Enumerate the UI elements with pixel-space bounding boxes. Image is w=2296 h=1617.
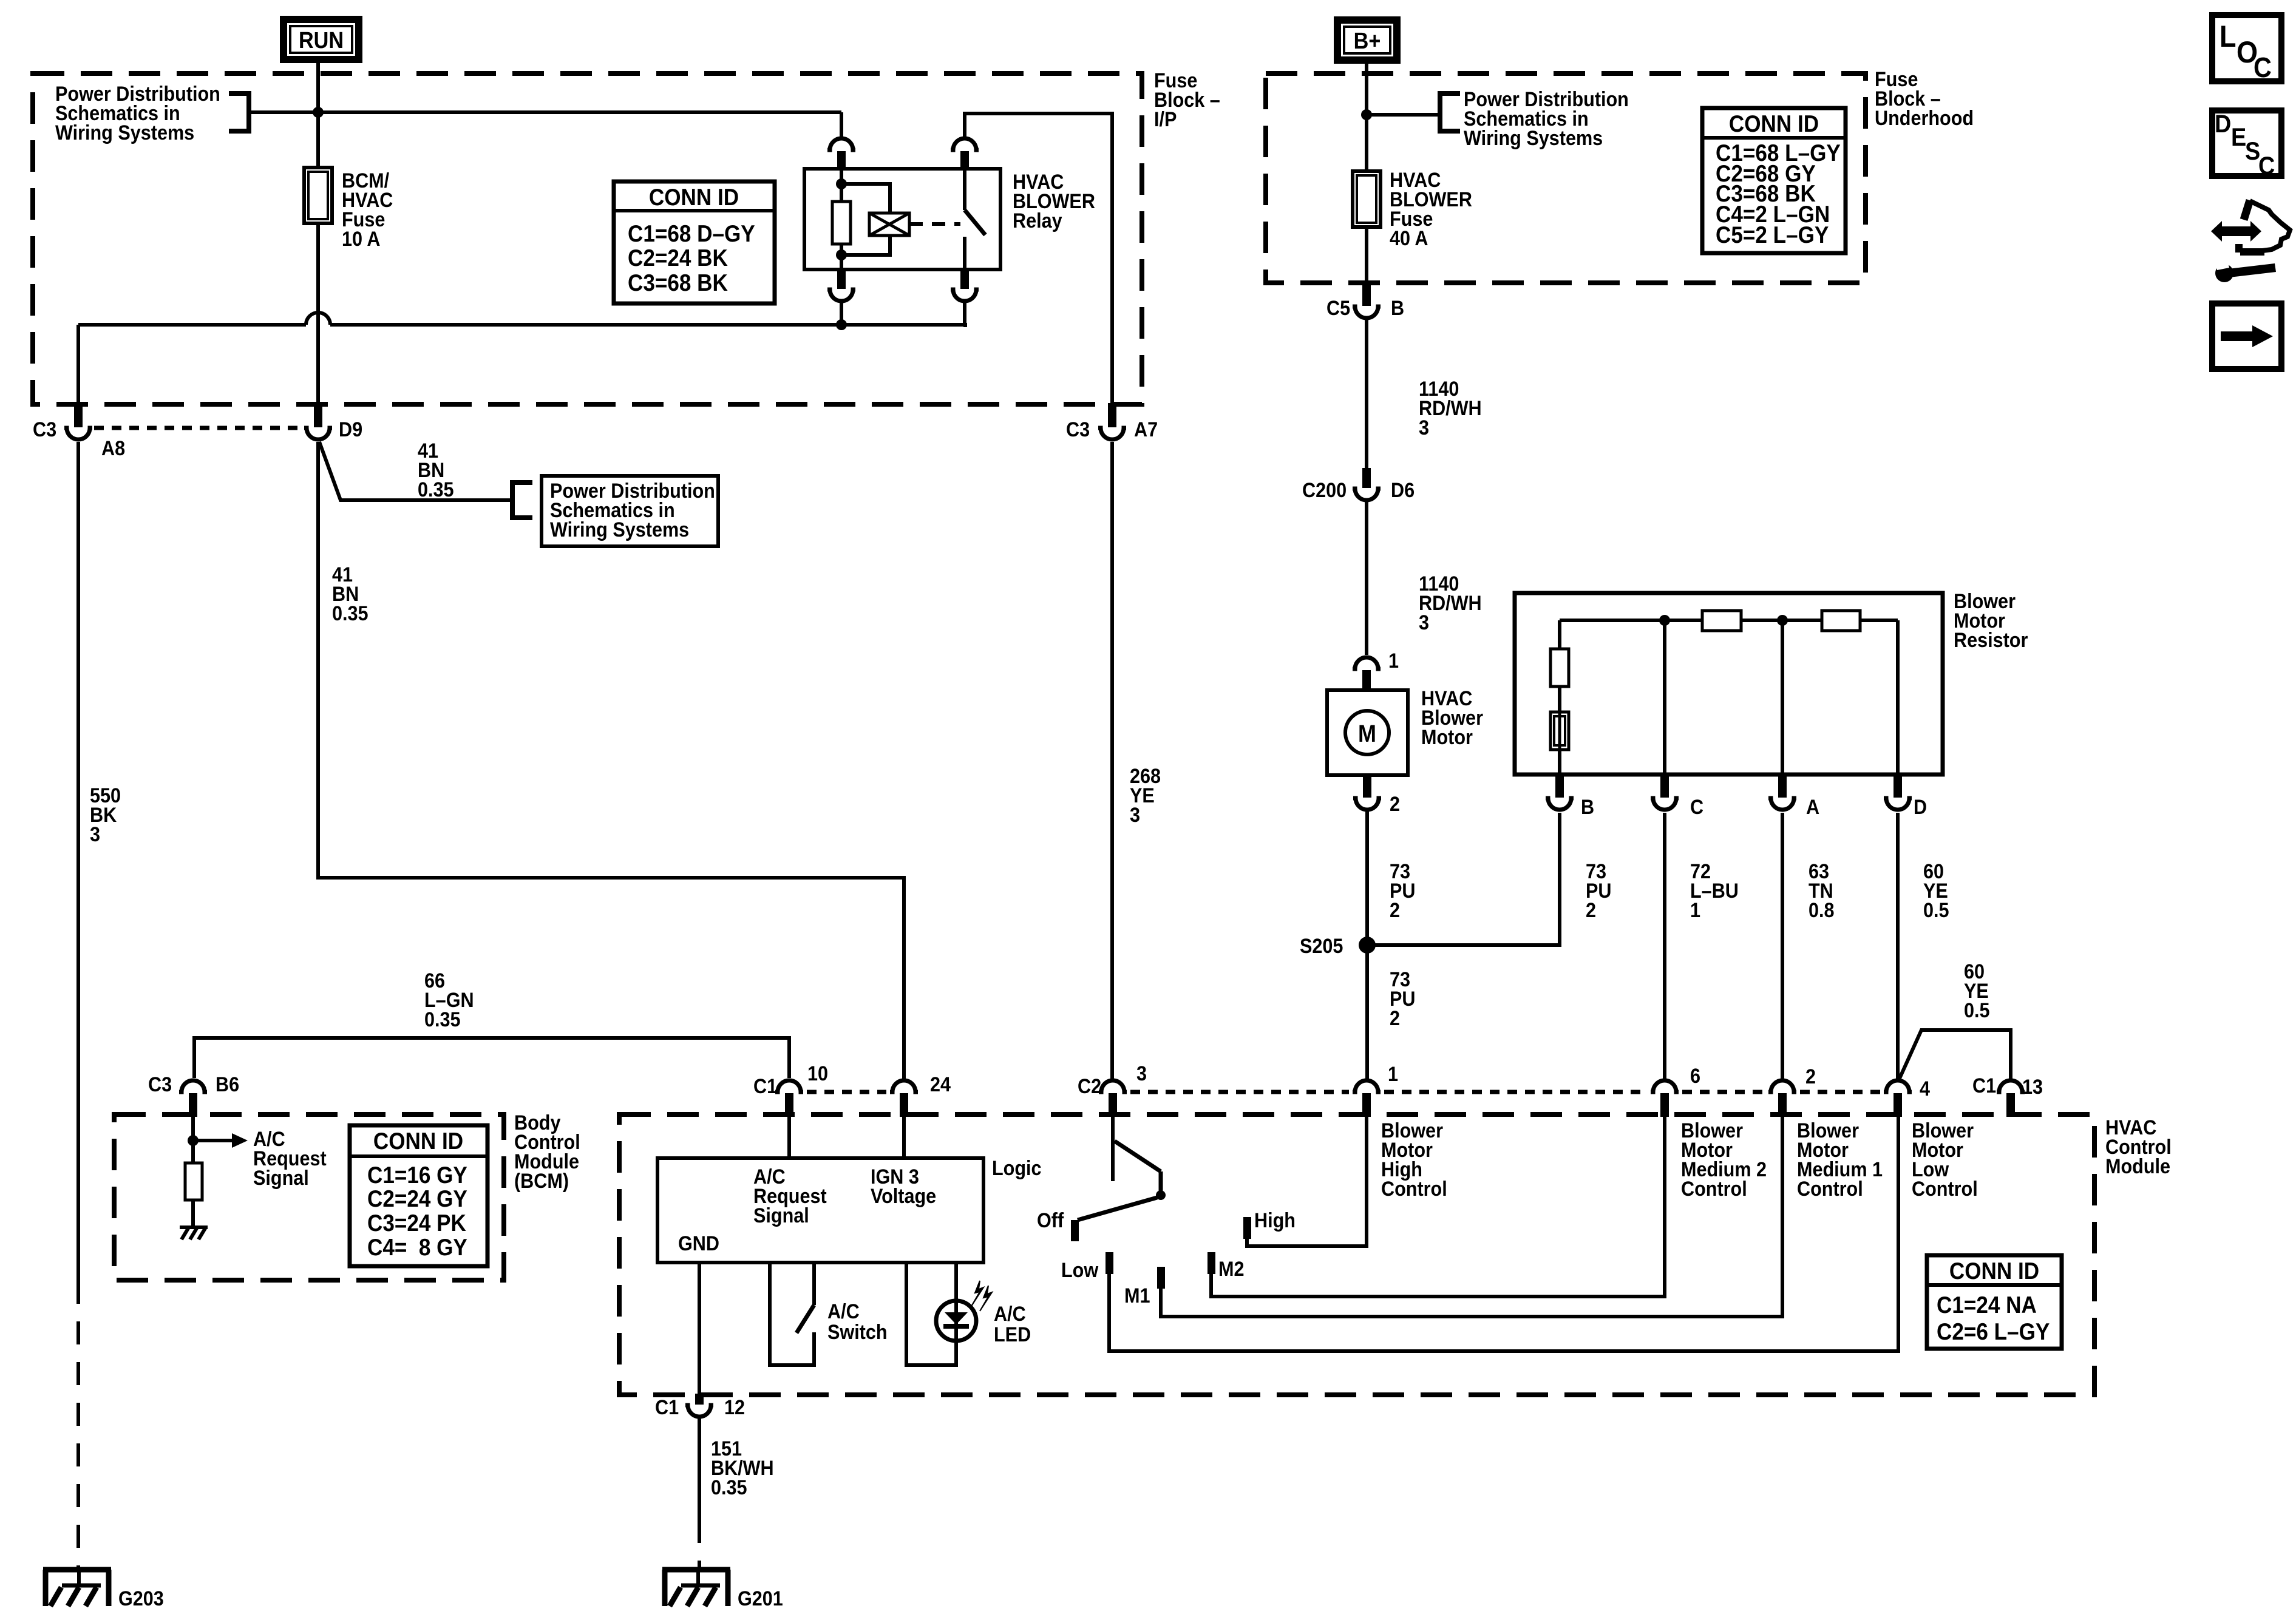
svg-text:0.35: 0.35 [711, 1476, 747, 1499]
svg-text:LED: LED [994, 1323, 1031, 1346]
wire 72 L-BU resistor C to module pin 6 [1663, 813, 1666, 1079]
blower switch High terminal [1243, 1217, 1251, 1239]
dotted connector line C2 3-1 [1130, 1090, 1349, 1094]
connector C5 pin B [1362, 283, 1371, 306]
wire 550 BK dashed segment to G203 [76, 1281, 80, 1570]
svg-text:Control: Control [1797, 1178, 1863, 1201]
svg-text:M2: M2 [1218, 1258, 1244, 1281]
svg-text:A8: A8 [101, 437, 125, 460]
svg-text:M: M [1358, 720, 1376, 747]
fuse BCM/HVAC 10 A [304, 168, 332, 223]
svg-text:B+: B+ [1354, 27, 1381, 53]
svg-text:3: 3 [1419, 416, 1429, 439]
wire fuse to connector C5 [1365, 227, 1368, 284]
connector module C1 pin 12 [695, 1394, 704, 1405]
svg-text:C3: C3 [1066, 418, 1090, 441]
resistor element R1 (horizontal) [1702, 611, 1741, 631]
svg-text:A/C: A/C [827, 1300, 860, 1323]
connector resistor pin B [1555, 775, 1564, 798]
svg-text:24: 24 [930, 1073, 951, 1096]
wire resistor leg C [1663, 620, 1666, 775]
svg-text:C2=24 GY: C2=24 GY [367, 1185, 467, 1212]
relay pin 85 connector (bottom left) [837, 269, 846, 289]
svg-text:Control: Control [1681, 1178, 1747, 1201]
svg-text:Relay: Relay [1013, 209, 1062, 232]
node relay coil top junction [836, 178, 847, 189]
svg-text:M1: M1 [1124, 1284, 1150, 1307]
wire resistor to BCM ground [191, 1200, 195, 1227]
ground G201 [662, 1567, 730, 1573]
wire B6 into BCM [191, 1117, 195, 1163]
svg-text:C200: C200 [1302, 479, 1347, 502]
svg-text:2: 2 [1586, 899, 1596, 922]
ignition RUN voltage source box [280, 16, 362, 63]
wire 151 BK/WH solid segment [698, 1419, 701, 1520]
svg-text:C1: C1 [753, 1075, 777, 1098]
connector module C2 pin 6 [1651, 1080, 1679, 1092]
wire resistor leg A [1781, 620, 1784, 775]
svg-text:Logic: Logic [992, 1157, 1042, 1180]
CONN ID table (BCM) [350, 1125, 487, 1266]
bracket to Power Distribution (I/P) [229, 93, 249, 131]
svg-text:S205: S205 [1300, 935, 1343, 958]
wire ground bus horizontal with hop [78, 323, 306, 327]
relay actuation dashed link [909, 222, 960, 226]
svg-text:Underhood: Underhood [1875, 107, 1974, 130]
node junction at RUN feed [313, 107, 324, 118]
svg-text:0.8: 0.8 [1809, 899, 1835, 922]
blower switch Off terminal [1071, 1220, 1079, 1241]
wire 268 YE from A7 to HVAC control module pin 3 [1110, 442, 1114, 1079]
wire B+ feed vertical [1365, 63, 1368, 171]
wire relay pin87 corner [963, 323, 967, 327]
svg-text:C4= 8 GY: C4= 8 GY [367, 1233, 467, 1260]
wire RUN feed down to BCM/HVAC fuse [316, 112, 320, 168]
svg-text:CONN ID: CONN ID [649, 183, 739, 210]
connector blower motor pin 1 [1353, 657, 1381, 669]
svg-text:Motor: Motor [1421, 726, 1473, 749]
svg-text:Off: Off [1037, 1209, 1064, 1232]
node resistor tap C [1659, 615, 1670, 626]
Power Distribution Schematics reference box [542, 476, 718, 546]
connector module C2 pin 2 [1768, 1080, 1796, 1092]
fuse HVAC BLOWER 40 A [1353, 171, 1381, 227]
svg-text:3: 3 [1130, 804, 1140, 827]
resistor internal bus wire [1560, 619, 1702, 622]
svg-text:C1=24 NA: C1=24 NA [1937, 1291, 2037, 1318]
BCM internal ground symbol [180, 1225, 208, 1229]
dotted connector line C1 10-24 [807, 1090, 886, 1094]
wire Low terminal to module pin 4 [1109, 1117, 1898, 1351]
bracket to Power Distribution box [512, 483, 532, 518]
dotted connector line C3 A8-D9 [94, 426, 302, 430]
wire 60 YE jumper pin 4 to pin C1-13 [1898, 1030, 2011, 1081]
svg-text:CONN ID: CONN ID [373, 1127, 463, 1154]
svg-text:B: B [1581, 796, 1594, 819]
node relay coil ground junction [836, 319, 847, 330]
LOC icon box [2212, 15, 2281, 81]
wire coil bottom to relay pin 85 [840, 244, 843, 269]
resistor element R2 (horizontal) [1822, 611, 1860, 631]
wire bus corner down to connector C3-A8 [76, 325, 80, 404]
svg-text:40 A: 40 A [1390, 227, 1428, 250]
dotted connector line C2 6-2 [1682, 1090, 1765, 1094]
connector resistor pin C [1660, 775, 1669, 798]
wire RUN feed to relay pin 30 [318, 110, 841, 114]
svg-text:B6: B6 [216, 1073, 239, 1096]
wire resistor leg D [1896, 620, 1900, 775]
svg-text:(BCM): (BCM) [514, 1170, 569, 1193]
svg-text:Module: Module [2105, 1155, 2170, 1178]
svg-text:3: 3 [1136, 1062, 1147, 1085]
relay solenoid coil symbol [869, 213, 909, 236]
wire logic GND to connector C1-12 [698, 1263, 701, 1396]
connector module C2 pin 3 [1099, 1080, 1127, 1092]
wire resistor leg B middle [1558, 686, 1561, 712]
svg-text:1: 1 [1388, 649, 1399, 673]
battery B+ voltage source box [1334, 16, 1401, 64]
svg-text:High: High [1254, 1209, 1296, 1232]
dotted connector line C2 2-4 [1800, 1090, 1880, 1094]
HVAC Blower Motor box [1327, 690, 1408, 775]
node relay coil bottom junction [836, 249, 847, 260]
LED A/C indicator [936, 1301, 976, 1341]
relay pin 87 connector (bottom right) [960, 269, 969, 289]
wire from bracket to RUN feed [249, 110, 318, 114]
svg-text:Low: Low [1061, 1259, 1099, 1282]
svg-text:L: L [2220, 20, 2236, 54]
node blower switch pivot [1156, 1190, 1166, 1200]
svg-text:0.35: 0.35 [424, 1008, 461, 1031]
wire 63 TN resistor A to module pin 2 [1781, 813, 1784, 1079]
connector blower motor pin 2 [1363, 775, 1371, 798]
svg-text:D6: D6 [1391, 479, 1415, 502]
wire coil parallel loop bottom [841, 236, 890, 255]
svg-text:2: 2 [1390, 899, 1400, 922]
svg-text:Switch: Switch [827, 1321, 888, 1344]
wire RUN feed vertical [316, 63, 320, 112]
connector BCM C3 pin B6 [179, 1080, 207, 1092]
wire 1140 RD/WH C5 to C200 [1365, 320, 1368, 472]
svg-text:12: 12 [724, 1396, 745, 1419]
Body Control Module dashed boundary [114, 1114, 504, 1280]
svg-text:Signal: Signal [253, 1167, 309, 1190]
wire M1 terminal to module pin 2 [1161, 1117, 1782, 1317]
wire 151 BK/WH dashed segment to G201 [698, 1520, 701, 1570]
connector module C1 pin 13 [1997, 1080, 2025, 1092]
svg-text:1: 1 [1690, 899, 1700, 922]
CONN ID table (Fuse Block - Underhood) [1702, 108, 1846, 253]
svg-text:4: 4 [1920, 1077, 1930, 1100]
svg-text:2: 2 [1390, 793, 1400, 816]
wire resistor leg B upper [1558, 620, 1561, 649]
relay HVAC BLOWER box [804, 169, 1000, 269]
svg-text:C3: C3 [33, 418, 56, 441]
connector C3 pin A8 [74, 403, 83, 427]
relay pin 30 connector (top right) [951, 138, 979, 150]
wire junction to bracket (underhood) [1367, 113, 1440, 117]
svg-text:0.5: 0.5 [1964, 999, 1990, 1022]
blower switch M1 terminal [1157, 1267, 1165, 1289]
wire 60 YE resistor D to module pin 4 [1896, 813, 1900, 1079]
HVAC Control Module dashed boundary [619, 1114, 2094, 1395]
svg-text:Wiring Systems: Wiring Systems [550, 518, 689, 541]
wire coil parallel loop top [841, 184, 890, 213]
svg-text:3: 3 [90, 823, 100, 846]
wire 73 PU motor to S205 [1365, 812, 1369, 945]
svg-text:0.5: 0.5 [1923, 899, 1949, 922]
svg-text:E: E [2231, 123, 2246, 151]
wire 66 L-GN BCM B6 to module C1-10 [194, 1038, 789, 1078]
wire 550 BK from A8 solid segment [76, 442, 80, 1281]
svg-text:10: 10 [807, 1062, 828, 1085]
relay coil feed wire [840, 169, 843, 202]
svg-text:CONN ID: CONN ID [1729, 110, 1819, 137]
CONN ID table (HVAC Control Module) [1927, 1255, 2062, 1349]
svg-text:C5=2 L–GY: C5=2 L–GY [1716, 221, 1829, 248]
wire 1140 RD/WH C200 to blower motor [1365, 502, 1368, 655]
wire module pin 10 to logic block [787, 1117, 791, 1158]
wire 41 BN branch from D9 to power distribution [319, 442, 512, 500]
svg-text:C1=16 GY: C1=16 GY [367, 1161, 467, 1188]
connector module C2 pin 4 [1884, 1080, 1912, 1092]
svg-text:CONN ID: CONN ID [1949, 1257, 2039, 1284]
wire module pin 3 to blower switch [1111, 1117, 1115, 1181]
svg-text:Control: Control [1912, 1178, 1978, 1201]
wire relay pin 30 top run to fuse block output [965, 114, 1112, 404]
wire module pin 24 to logic block [902, 1117, 906, 1158]
svg-text:C3: C3 [148, 1073, 172, 1096]
svg-text:G203: G203 [118, 1587, 164, 1610]
A/C switch blade [796, 1305, 814, 1333]
svg-text:A: A [1806, 796, 1819, 819]
wire High terminal to module pin 1 [1247, 1117, 1367, 1246]
relay switch lower contact wire [963, 237, 966, 269]
resistor relay coil suppression [832, 202, 851, 244]
dotted connector line C2 1-6 [1384, 1090, 1647, 1094]
wire resistor leg B lower [1558, 750, 1561, 775]
wire 73 PU S205 down to module pin 1 [1365, 945, 1369, 1079]
svg-text:10 A: 10 A [342, 228, 380, 251]
svg-text:A/C: A/C [994, 1303, 1026, 1326]
relay switch fixed contact wire [963, 169, 966, 210]
svg-text:C2=24 BK: C2=24 BK [628, 244, 728, 271]
node BCM request junction [188, 1135, 199, 1146]
bracket to Power Distribution (underhood) [1440, 93, 1460, 131]
Fuse Block - Underhood dashed boundary [1266, 73, 1866, 283]
svg-text:D9: D9 [339, 418, 362, 441]
blower switch wiper arm to Off [1078, 1198, 1157, 1220]
svg-text:Wiring Systems: Wiring Systems [55, 121, 194, 144]
svg-text:RUN: RUN [299, 27, 344, 53]
resistor BCM pull-down [185, 1163, 202, 1200]
relay pin 86 connector (top left) [827, 138, 855, 150]
LED light arrows [971, 1281, 983, 1306]
relay switch blade [965, 210, 985, 235]
svg-text:6: 6 [1690, 1065, 1700, 1088]
fusible element on leg B [1550, 712, 1569, 750]
blower switch feed blade [1115, 1141, 1161, 1171]
A/C LED loop wires [906, 1263, 956, 1365]
svg-text:13: 13 [2022, 1076, 2043, 1099]
forward arrow icon box [2212, 303, 2281, 369]
DESC icon box [2212, 110, 2281, 176]
svg-text:C3=24 PK: C3=24 PK [367, 1209, 466, 1236]
svg-text:C3=68 BK: C3=68 BK [628, 269, 728, 296]
node resistor tap A [1777, 615, 1788, 626]
A/C request signal arrow [193, 1139, 232, 1142]
wire relay pin 85 to ground bus [840, 302, 843, 325]
blower switch Low terminal [1106, 1252, 1113, 1274]
svg-text:C2=6 L–GY: C2=6 L–GY [1937, 1318, 2050, 1344]
svg-text:2: 2 [1805, 1065, 1816, 1088]
svg-text:2: 2 [1390, 1007, 1400, 1030]
logic block box [657, 1158, 983, 1263]
svg-text:I/P: I/P [1154, 108, 1177, 131]
ground G203 [43, 1567, 111, 1573]
svg-text:C5: C5 [1326, 297, 1350, 320]
svg-text:1: 1 [1388, 1063, 1398, 1086]
A/C switch loop wires [770, 1263, 814, 1365]
Fuse Block - I/P dashed boundary [33, 73, 1142, 404]
svg-text:C: C [1690, 796, 1703, 819]
svg-text:Wiring Systems: Wiring Systems [1464, 127, 1603, 150]
svg-text:G201: G201 [738, 1587, 783, 1610]
connector resistor pin A [1778, 775, 1787, 798]
connector C3 pin D9 [314, 403, 322, 427]
resistor element R3 (vertical) [1550, 649, 1569, 686]
node splice S205 [1359, 937, 1376, 954]
svg-text:Resistor: Resistor [1954, 629, 2028, 652]
svg-text:C2: C2 [1078, 1075, 1101, 1098]
svg-text:C1: C1 [655, 1396, 679, 1419]
svg-text:Signal: Signal [753, 1204, 809, 1227]
connector C200 pin D6 [1362, 468, 1371, 488]
wire S205 to resistor pin B [1367, 813, 1560, 945]
connector module C1 pin 24 [890, 1080, 918, 1092]
wire relay pin 87 to output [963, 302, 966, 325]
blower switch M2 terminal [1207, 1252, 1215, 1274]
svg-text:C1=68 D–GY: C1=68 D–GY [628, 220, 755, 246]
connector module C2 pin 1 [1353, 1080, 1381, 1092]
svg-text:Voltage: Voltage [871, 1185, 936, 1208]
motor symbol circle [1345, 711, 1389, 754]
connector C3 pin A7 [1108, 403, 1116, 427]
svg-text:B: B [1391, 297, 1404, 320]
svg-text:3: 3 [1419, 611, 1429, 634]
wire M2 terminal to module pin 6 [1211, 1117, 1665, 1297]
svg-text:D: D [1914, 796, 1927, 819]
svg-text:C: C [2254, 52, 2272, 84]
wire fuse to connector D9 [316, 223, 320, 403]
connector resistor pin D [1894, 775, 1902, 798]
node B+ feed junction [1361, 109, 1372, 120]
connector module C1 pin 10 [775, 1080, 803, 1092]
A/C switch fixed terminal [812, 1263, 816, 1305]
svg-text:A7: A7 [1134, 418, 1158, 441]
svg-text:Control: Control [1381, 1178, 1447, 1201]
Blower Motor Resistor box [1515, 593, 1943, 775]
svg-text:C1: C1 [1972, 1074, 1996, 1097]
wire 41 BN from D9 down to HVAC control module pin 24 [318, 442, 904, 1079]
svg-text:0.35: 0.35 [332, 602, 369, 625]
svg-text:C: C [2258, 152, 2275, 180]
svg-text:GND: GND [678, 1232, 719, 1255]
svg-text:0.35: 0.35 [418, 478, 454, 501]
adjust/repair hand icon [2211, 221, 2261, 242]
CONN ID table (Fuse Block - I/P) [614, 181, 775, 303]
svg-text:D: D [2215, 110, 2231, 138]
